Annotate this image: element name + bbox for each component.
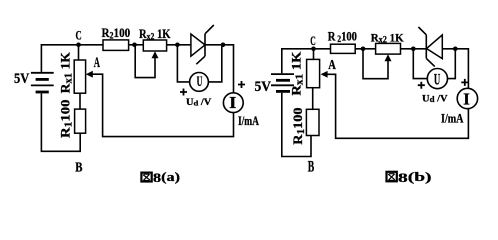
svg-text:R1100: R1100 bbox=[59, 100, 75, 139]
svg-text:Rx1 1K: Rx1 1K bbox=[289, 52, 305, 96]
svg-text:5V: 5V bbox=[14, 71, 29, 87]
svg-text:A: A bbox=[328, 57, 336, 72]
svg-text:A: A bbox=[94, 55, 100, 71]
svg-text:C: C bbox=[76, 29, 82, 43]
svg-text:R2100: R2100 bbox=[102, 26, 131, 41]
svg-text:I: I bbox=[229, 93, 236, 112]
svg-text:C: C bbox=[310, 34, 316, 48]
svg-text:8(b): 8(b) bbox=[398, 169, 432, 185]
svg-text:Rx1 1K: Rx1 1K bbox=[58, 52, 74, 93]
svg-text:Rx2 1K: Rx2 1K bbox=[371, 30, 405, 44]
svg-text:Ud /V: Ud /V bbox=[186, 97, 212, 108]
svg-text:U: U bbox=[197, 74, 203, 90]
svg-text:8(a): 8(a) bbox=[153, 169, 180, 185]
svg-text:B: B bbox=[75, 160, 82, 175]
svg-text:Rx2 1K: Rx2 1K bbox=[139, 26, 171, 42]
svg-text:R1100: R1100 bbox=[291, 107, 307, 144]
svg-text:Ud /V: Ud /V bbox=[422, 95, 448, 105]
svg-text:R 2100: R 2100 bbox=[328, 30, 357, 45]
svg-text:U: U bbox=[434, 71, 441, 88]
svg-text:I/mA: I/mA bbox=[238, 113, 259, 128]
svg-text:I/mA: I/mA bbox=[441, 110, 464, 125]
svg-text:5V: 5V bbox=[255, 79, 272, 95]
svg-text:B: B bbox=[308, 159, 315, 176]
svg-text:I: I bbox=[463, 89, 470, 108]
